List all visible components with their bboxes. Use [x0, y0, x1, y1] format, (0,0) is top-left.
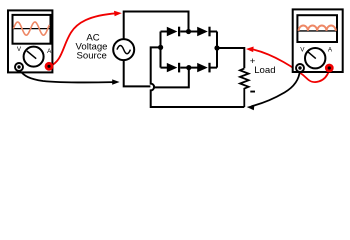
wire: negative output from left node down to bottom rail: [151, 47, 245, 107]
bridge top row wire: [161, 31, 218, 33]
right meter display: [297, 15, 337, 42]
arrowhead red left lead: [114, 11, 122, 17]
right meter outer box: [293, 9, 343, 72]
diode D1 (top-left): [167, 27, 178, 36]
diode D2 (top-right): [197, 27, 208, 36]
left meter sine waveform: [13, 22, 49, 35]
arrowhead red right lead: [246, 47, 254, 53]
left meter display: [13, 15, 51, 44]
bridge bottom row wire: [161, 67, 218, 69]
left meter display centerline: [14, 28, 50, 30]
wire: AC source loop left vertical + top feed to bridge top node: [124, 12, 189, 40]
node right (plus): [214, 45, 219, 50]
bridge right column wire: [216, 32, 218, 68]
wire: AC bottom wire right of hop to bridge bottom node: [154, 68, 188, 88]
arrowhead black left lead: [112, 79, 119, 84]
diode D4 (bottom-right): [197, 63, 208, 72]
left meter black terminal: [15, 63, 23, 71]
node bottom center: [186, 65, 191, 70]
right meter rectified waveform humps: [299, 25, 336, 30]
bridge left column wire: [160, 32, 162, 68]
wire: right meter red test lead to load + corner: [250, 49, 329, 82]
arrowhead black right lead: [247, 105, 255, 111]
wire: right meter black test lead to load - corner: [252, 71, 300, 107]
AC sine symbol: [117, 46, 130, 54]
right meter black terminal: [296, 64, 304, 72]
diode D3 (bottom-left): [167, 63, 178, 72]
wire: positive output from right node to load top: [217, 48, 244, 68]
left meter knob: [24, 47, 44, 67]
label -: [250, 91, 255, 93]
right meter display baseline: [298, 30, 336, 32]
right meter red terminal: [325, 64, 334, 73]
wire: left meter red test lead to AC source top corner: [50, 13, 117, 66]
resistor load zigzag: [240, 69, 249, 108]
AC voltage source circle: [113, 39, 134, 60]
node left (minus): [158, 45, 163, 50]
left meter outer box: [8, 10, 52, 72]
node top center: [186, 29, 191, 34]
svg-text:Source: Source: [76, 51, 106, 62]
wire: left meter black test lead to AC source bottom corner: [20, 71, 115, 83]
right meter knob: [305, 48, 325, 68]
wire: AC source bottom vertical: [124, 60, 151, 87]
left meter knob pointer: [27, 51, 36, 59]
svg-text:Load: Load: [254, 65, 275, 76]
left meter red terminal: [45, 62, 54, 71]
right meter knob pointer: [307, 51, 316, 58]
